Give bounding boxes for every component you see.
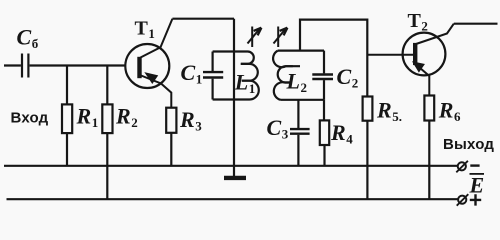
wire tank1 bottom [213, 98, 234, 100]
svg-text:Выход: Выход [443, 136, 494, 153]
resistor R4 [323, 100, 325, 121]
resistor R5 [363, 97, 373, 121]
T2 base bar [413, 43, 417, 65]
resistor R3 [166, 108, 176, 133]
T1 collector lead [141, 19, 173, 58]
lower rail [7, 198, 458, 200]
minus sign [470, 164, 479, 166]
resistor R6 [424, 96, 434, 121]
wire tank2 bottom [281, 99, 325, 101]
T2 emitter arrowhead [413, 62, 424, 72]
T2 base wire [367, 54, 413, 56]
transistor T2 circle [403, 33, 446, 76]
wire vertical feed / L1 spine / ground drop [233, 19, 235, 177]
upper rail [4, 165, 458, 167]
capacitor C1 [212, 52, 214, 72]
T2 emitter lead [416, 65, 429, 96]
inductor L1 [234, 52, 254, 64]
inductor L2 [273, 51, 300, 68]
capacitor Cb [22, 54, 28, 78]
ground bar [224, 176, 246, 180]
tuning arrow of L1 [251, 27, 253, 48]
tuning arrow of L2 [277, 27, 279, 48]
label E with overline [470, 173, 485, 175]
svg-text:Вход: Вход [11, 110, 49, 127]
T1 emitter lead [141, 76, 171, 108]
svg-text:E: E [469, 173, 485, 198]
terminal minus [458, 162, 466, 170]
T2 collector lead [416, 24, 454, 44]
wire input left segment [4, 64, 21, 66]
T1 base bar [137, 57, 141, 78]
capacitor C3 [297, 100, 299, 128]
wire tank2 top [278, 49, 324, 51]
T1 emitter arrowhead [145, 73, 157, 83]
plus sign [470, 194, 481, 205]
T2 collector wire out [454, 23, 498, 25]
resistor R2 [106, 66, 108, 105]
transistor T1 circle [125, 44, 169, 88]
resistor R1 [66, 66, 68, 105]
wire input to T1 base [30, 64, 138, 66]
wire L2 top riser over to T2 base / R5 [300, 20, 367, 97]
wire tank1 top [213, 50, 234, 52]
capacitor C2 [323, 51, 325, 74]
wire T1 collector to tank1 [172, 18, 234, 20]
terminal plus [458, 196, 466, 204]
